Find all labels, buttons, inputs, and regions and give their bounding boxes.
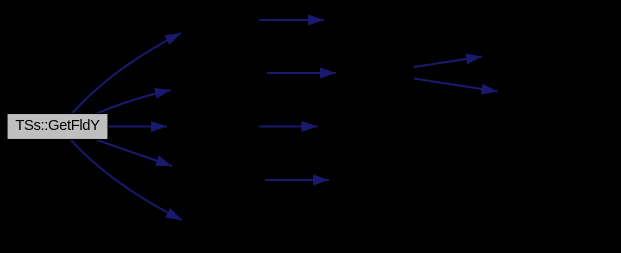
wire right edge up <box>414 57 482 68</box>
wire horizontal edge row3 <box>259 126 318 128</box>
node TSs::GetFldY <box>7 114 108 140</box>
wire right edge down <box>414 79 498 92</box>
wire edge box to node1 (steep up) <box>72 33 181 114</box>
wire horizontal edge row4 <box>265 179 329 181</box>
wire edge box to node2 (shallow up) <box>97 90 171 114</box>
wire horizontal edge row1 <box>259 19 324 21</box>
wire edge box to node4 (shallow down) <box>97 140 172 166</box>
wire edge box to node5 (steep down) <box>71 140 182 220</box>
wire horizontal edge row2 <box>267 72 336 74</box>
svg-text:TSs::GetFldY: TSs::GetFldY <box>15 118 100 134</box>
wire edge box to node3 (horizontal) <box>109 126 168 128</box>
